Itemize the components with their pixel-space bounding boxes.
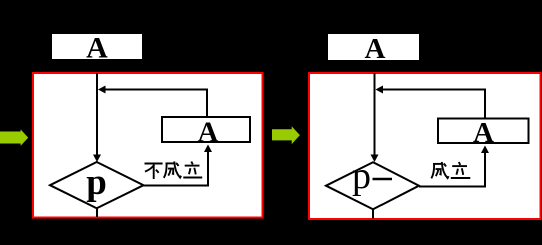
svg-text:A: A [198,117,219,149]
svg-text:A: A [86,31,108,64]
svg-text:p: p [86,162,107,203]
svg-text:A: A [473,117,494,149]
svg-text:A: A [365,33,386,65]
svg-text:p: p [352,155,371,197]
